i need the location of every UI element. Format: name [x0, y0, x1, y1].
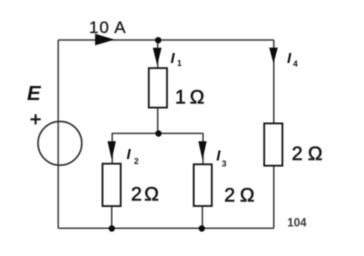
label I3: [216, 148, 226, 169]
wire: I2 branch vertical: [111, 133, 114, 228]
value label 2 ohm (left): [131, 183, 159, 205]
page number label 104: [287, 218, 307, 230]
node: bottom junction dot (I2 branch): [109, 225, 115, 231]
wire: I3 branch vertical: [201, 133, 204, 228]
svg-text:2: 2: [131, 183, 142, 205]
resistor R2 2 ohm (left): [103, 164, 121, 206]
wire: bottom horizontal return: [58, 227, 274, 229]
svg-text:2: 2: [134, 156, 139, 166]
svg-text:I: I: [171, 50, 176, 67]
svg-text:Ω: Ω: [308, 143, 323, 165]
plus sign of source E: [31, 114, 41, 124]
wire: middle branch vertical (I1): [157, 40, 159, 133]
resistor R3 2 ohm (middle-right): [194, 164, 212, 206]
svg-text:Ω: Ω: [190, 86, 205, 108]
resistor R4 2 ohm (right): [264, 123, 282, 165]
arrow: I1 (down): [153, 48, 162, 65]
value label 2 ohm (right): [292, 143, 323, 165]
svg-text:4: 4: [293, 58, 298, 68]
svg-text:Ω: Ω: [144, 183, 159, 205]
svg-text:I: I: [216, 148, 221, 165]
svg-text:2: 2: [292, 143, 303, 165]
wire: top horizontal (node from E+ to right branch): [58, 39, 274, 41]
label I4: [287, 50, 298, 68]
node: bottom junction dot (I3 branch): [199, 225, 205, 231]
wire: left vertical through source E: [57, 40, 59, 228]
svg-text:1: 1: [177, 58, 182, 68]
label E: [27, 82, 42, 105]
svg-text:3: 3: [222, 158, 227, 168]
wire: splitter horizontal between I2 and I3 branches: [112, 132, 203, 134]
node: junction dot on splitter: [155, 130, 161, 136]
label I1: [171, 50, 183, 68]
arrow: I3 (down): [198, 141, 206, 160]
svg-text:I: I: [287, 50, 292, 67]
svg-text:Ω: Ω: [240, 184, 255, 206]
arrow: I2 (down): [108, 141, 116, 160]
svg-text:104: 104: [287, 218, 307, 230]
svg-text:E: E: [27, 82, 42, 105]
svg-text:I: I: [127, 146, 132, 163]
label 10 A: [89, 18, 126, 37]
value label 1 ohm: [175, 86, 204, 108]
resistor R1 1 ohm: [149, 68, 167, 108]
node: junction dot on top wire: [155, 37, 161, 43]
voltage source E (circle): [38, 121, 82, 165]
svg-text:2: 2: [224, 184, 235, 206]
value label 2 ohm (middle-right): [224, 184, 254, 206]
arrow: 10 A current on top wire (pointing right): [95, 34, 115, 46]
label I2: [127, 146, 140, 166]
arrow: I4 (down): [269, 48, 278, 64]
wire: right vertical branch (I4): [273, 40, 275, 228]
svg-text:1: 1: [175, 86, 186, 108]
svg-text:10 A: 10 A: [89, 18, 126, 37]
